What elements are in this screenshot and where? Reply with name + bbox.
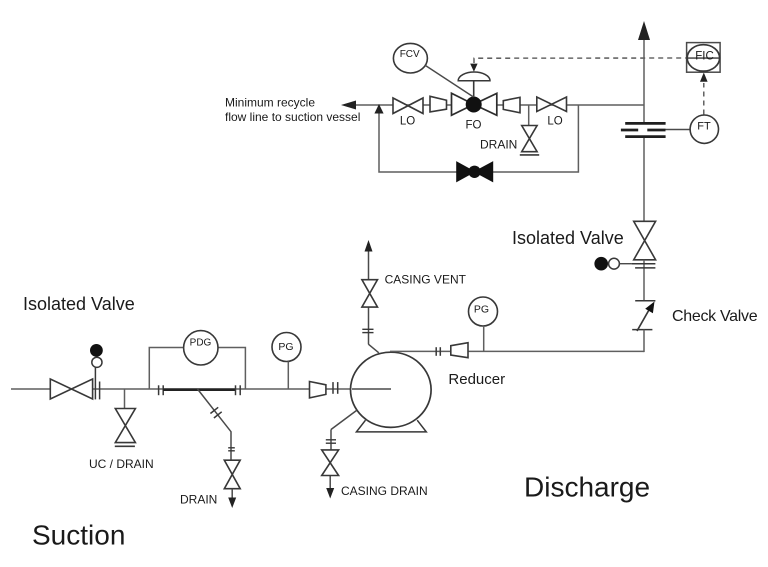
wire UC drain branch xyxy=(124,389,126,409)
reducer R2 xyxy=(503,97,520,113)
svg-text:CASING VENT: CASING VENT xyxy=(385,273,467,287)
valve DRAIN (suction) xyxy=(224,460,240,489)
flange pair discharge xyxy=(435,347,437,356)
wire casing drain xyxy=(331,411,357,430)
globe valve bypass (normally closed, filled) xyxy=(457,162,475,182)
isolated valve underlines xyxy=(632,263,656,265)
instrument bubble FCV xyxy=(393,43,427,73)
wire bypass loop xyxy=(379,105,578,172)
svg-text:FIC: FIC xyxy=(695,51,714,63)
arrow signal up into FIC xyxy=(700,73,708,82)
svg-text:Isolated Valve: Isolated Valve xyxy=(512,228,624,248)
pump base xyxy=(356,420,426,432)
spectacle flange lines xyxy=(94,367,96,400)
svg-text:PG: PG xyxy=(278,341,293,353)
arrow up at bypass junction xyxy=(374,104,383,114)
svg-text:LO: LO xyxy=(547,115,562,127)
actuator diaphragm dome xyxy=(458,72,490,81)
pump P1 casing xyxy=(351,352,432,427)
wire PG stem (suction) xyxy=(287,362,289,390)
flange pair 1 xyxy=(158,385,160,395)
reducer suction xyxy=(310,382,326,398)
flange pair at pump suction xyxy=(332,382,334,394)
svg-text:Discharge: Discharge xyxy=(524,472,650,503)
wire PG stem (discharge) xyxy=(483,326,485,351)
svg-text:Minimum recycle: Minimum recycle xyxy=(225,95,315,109)
reducer R1 xyxy=(430,96,447,112)
svg-text:FCV: FCV xyxy=(400,49,420,60)
control valve FO ball (fail open) xyxy=(466,97,482,113)
svg-text:Isolated Valve: Isolated Valve xyxy=(23,294,135,314)
flange slashes on diagonal xyxy=(210,407,218,413)
arrow discharge up xyxy=(638,21,650,40)
arrow to suction vessel xyxy=(341,101,356,110)
svg-text:LO: LO xyxy=(400,115,415,127)
wire drain outlet stem xyxy=(231,489,233,498)
check valve xyxy=(635,300,655,302)
wire casing vent xyxy=(368,248,370,280)
PDG loop wires xyxy=(149,348,183,390)
dashed signal FT to FIC xyxy=(703,83,705,115)
wire discharge horizontal xyxy=(390,350,644,352)
valve casing vent xyxy=(362,280,378,307)
casing drain flange ticks xyxy=(326,439,336,441)
lock circles (car seal) xyxy=(594,257,608,271)
svg-text:Check Valve: Check Valve xyxy=(672,308,758,325)
isolated valve (suction) xyxy=(50,379,92,399)
valve DRAIN (recycle) xyxy=(522,126,537,152)
arrow drain down xyxy=(228,498,236,509)
dashed signal line FIC to FCV xyxy=(474,58,687,63)
wire discharge riser upper xyxy=(643,38,645,123)
instrument FIC square xyxy=(687,43,721,73)
instrument FT xyxy=(690,115,718,143)
UC drain underline xyxy=(115,445,135,447)
valve UC/DRAIN xyxy=(115,409,135,443)
wire orifice to FT xyxy=(666,129,691,131)
svg-text:UC / DRAIN: UC / DRAIN xyxy=(89,457,154,471)
actuator stem xyxy=(473,81,475,97)
svg-text:PDG: PDG xyxy=(190,338,212,349)
instrument PG (discharge) xyxy=(469,297,498,326)
wire riser through isolated valve region xyxy=(643,260,645,301)
control valve FO body xyxy=(452,93,474,115)
small ticks above drain valve xyxy=(228,447,235,449)
pump shaft stub xyxy=(352,388,391,390)
svg-text:DRAIN: DRAIN xyxy=(180,493,217,507)
svg-text:FO: FO xyxy=(466,120,482,132)
FIC midline xyxy=(687,57,721,59)
svg-text:CASING DRAIN: CASING DRAIN xyxy=(341,484,428,498)
wire suction main line xyxy=(11,388,391,390)
wire riser between orifice and isolated valve xyxy=(643,137,645,222)
wire riser bottom to discharge line xyxy=(643,330,645,353)
orifice plate flow element xyxy=(621,123,666,136)
isolated valve (discharge) xyxy=(634,221,656,259)
svg-text:flow line to suction vessel: flow line to suction vessel xyxy=(225,110,360,124)
svg-text:PG: PG xyxy=(474,303,489,315)
wire drain diagonal branch xyxy=(198,389,232,460)
instrument PDG xyxy=(184,331,218,365)
leader line FCV to valve xyxy=(425,65,474,97)
valve LO2 (gate valve, locked open) xyxy=(537,97,567,112)
bold spool segment xyxy=(163,388,235,391)
svg-text:Suction: Suction xyxy=(32,520,125,551)
arrow casing vent up xyxy=(365,240,373,252)
svg-text:DRAIN: DRAIN xyxy=(480,138,517,152)
arrow signal down onto actuator xyxy=(470,64,477,72)
wire recycle main line xyxy=(344,104,644,106)
vent flange ticks xyxy=(362,328,373,330)
svg-text:Reducer: Reducer xyxy=(448,371,505,388)
valve casing drain xyxy=(322,450,339,476)
wire lock to valve xyxy=(619,263,631,265)
instrument PG (suction) xyxy=(272,333,301,362)
lock circles (suction) xyxy=(92,357,102,367)
flange pair 2 xyxy=(235,385,237,395)
reducer discharge xyxy=(451,343,468,358)
drain underline xyxy=(520,154,539,156)
instrument FIC circle xyxy=(687,45,719,71)
valve LO1 (gate valve, locked open) xyxy=(393,98,423,114)
wire drain branch (recycle) xyxy=(528,105,530,127)
svg-text:FT: FT xyxy=(697,121,711,133)
arrow casing drain down xyxy=(326,488,334,499)
